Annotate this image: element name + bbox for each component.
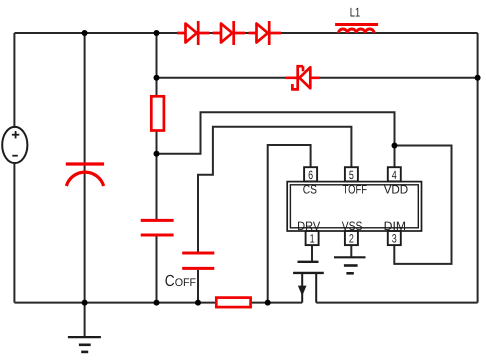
ground GND1 left xyxy=(68,337,101,352)
schottky diode D4 xyxy=(286,66,320,89)
wire input cap branch xyxy=(84,33,86,303)
pin box 5 xyxy=(345,167,358,182)
wire bottom rail right segment xyxy=(316,302,477,304)
wire CS net xyxy=(268,145,311,303)
svg-text:6: 6 xyxy=(308,168,313,182)
wire left ground stub xyxy=(84,303,86,337)
junction node ground rail 2 xyxy=(154,300,160,306)
svg-text:4: 4 xyxy=(392,168,397,182)
wire VDD net xyxy=(157,112,395,167)
wire TOFF cap to ground rail xyxy=(197,270,199,303)
junction node ground rail 1 xyxy=(82,300,88,306)
svg-text:CS: CS xyxy=(303,182,317,196)
pin box 2 xyxy=(345,231,358,246)
wire resistor branch lower xyxy=(156,236,158,303)
inductor L1 xyxy=(335,25,378,34)
svg-text:DIM: DIM xyxy=(384,219,406,233)
diode D1 xyxy=(177,21,210,45)
wire right rail xyxy=(477,33,479,303)
junction node top-left xyxy=(82,30,88,36)
wire DRV gate xyxy=(311,245,313,261)
diode D3 xyxy=(249,21,282,45)
capacitor C2 xyxy=(141,220,174,235)
svg-text:OFF: OFF xyxy=(175,277,197,289)
junction node sense xyxy=(265,300,271,306)
resistor R2 sense xyxy=(216,298,250,308)
wire resistor branch upper xyxy=(156,33,158,221)
voltage source V1 xyxy=(2,127,27,163)
svg-text:1: 1 xyxy=(310,232,315,246)
transistor Q1 mosfet xyxy=(293,262,324,303)
wire TOFF net xyxy=(198,127,351,252)
junction node schottky-right xyxy=(475,75,481,81)
diode D2 xyxy=(213,21,246,45)
svg-text:2: 2 xyxy=(349,232,354,246)
pin box 3 xyxy=(388,231,401,246)
pin box 4 xyxy=(388,167,401,182)
resistor R1 vertical xyxy=(151,96,164,130)
ground GND2 at VSS pin 2 xyxy=(334,257,366,273)
junction node schottky-left xyxy=(154,75,160,81)
svg-text:3: 3 xyxy=(392,232,397,246)
svg-text:TOFF: TOFF xyxy=(343,182,367,196)
svg-text:VSS: VSS xyxy=(342,219,363,233)
wire schottky net xyxy=(157,77,478,79)
wire left rail xyxy=(13,33,15,303)
svg-text:C: C xyxy=(165,273,175,290)
svg-text:VDD: VDD xyxy=(384,182,409,196)
capacitor C1 polarized input xyxy=(66,164,104,186)
junction node below R1 xyxy=(154,151,160,157)
pin box 1 xyxy=(306,231,319,246)
IC U1 body xyxy=(287,182,421,231)
svg-text:L1: L1 xyxy=(350,5,360,19)
wire VDD to DIM detour xyxy=(394,146,451,264)
pin box 6 xyxy=(304,167,317,182)
capacitor C3 Coff xyxy=(182,253,214,268)
transistor Q1 source arrow xyxy=(298,286,307,296)
svg-text:DRV: DRV xyxy=(297,219,321,233)
wire bottom rail left segment xyxy=(14,302,302,304)
junction node top-mid xyxy=(154,30,160,36)
wire top rail xyxy=(14,32,477,34)
junction node ground rail 3 xyxy=(195,300,201,306)
svg-text:5: 5 xyxy=(349,168,354,182)
junction node VDD xyxy=(392,143,398,149)
wire VSS stub xyxy=(350,245,352,257)
